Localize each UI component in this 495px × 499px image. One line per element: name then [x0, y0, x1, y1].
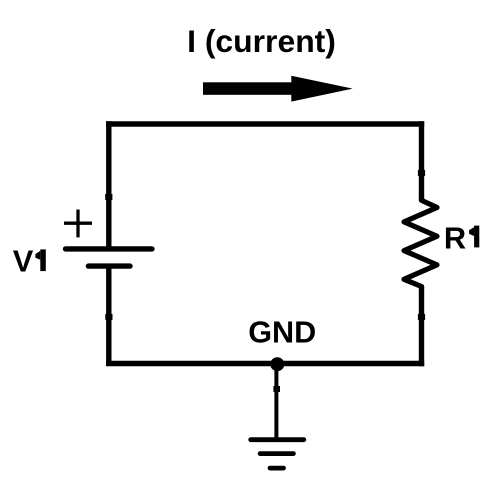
svg-text:V: V: [13, 244, 34, 279]
wire joint nub right upper: [418, 170, 425, 176]
battery V1 plus sign: [64, 210, 92, 238]
wire right lower: [419, 287, 424, 367]
wire joint nub left: [105, 194, 112, 200]
wire left lower: [106, 266, 111, 363]
resistor R1 zigzag: [404, 198, 437, 289]
ground stub joint nub: [273, 386, 280, 392]
wire joint nub left lower: [105, 314, 112, 320]
ground bar 3: [270, 466, 284, 471]
wire right upper: [419, 121, 424, 200]
ground stub wire: [274, 364, 278, 440]
ground bar 1: [251, 437, 304, 442]
battery V1 negative plate: [88, 263, 130, 268]
ground bar 2: [260, 451, 293, 456]
label R1: [444, 220, 479, 255]
wire bottom: [106, 361, 424, 366]
wire top: [106, 121, 424, 126]
svg-text:R: R: [444, 220, 466, 255]
node GND junction dot: [270, 357, 284, 371]
svg-text:I (current): I (current): [187, 23, 336, 59]
wire joint nub right lower: [418, 314, 425, 320]
wire left upper: [106, 121, 111, 249]
current direction arrow: [203, 76, 353, 102]
battery V1 positive plate: [66, 246, 153, 251]
label V1: [13, 244, 46, 279]
svg-text:GND: GND: [248, 316, 316, 350]
